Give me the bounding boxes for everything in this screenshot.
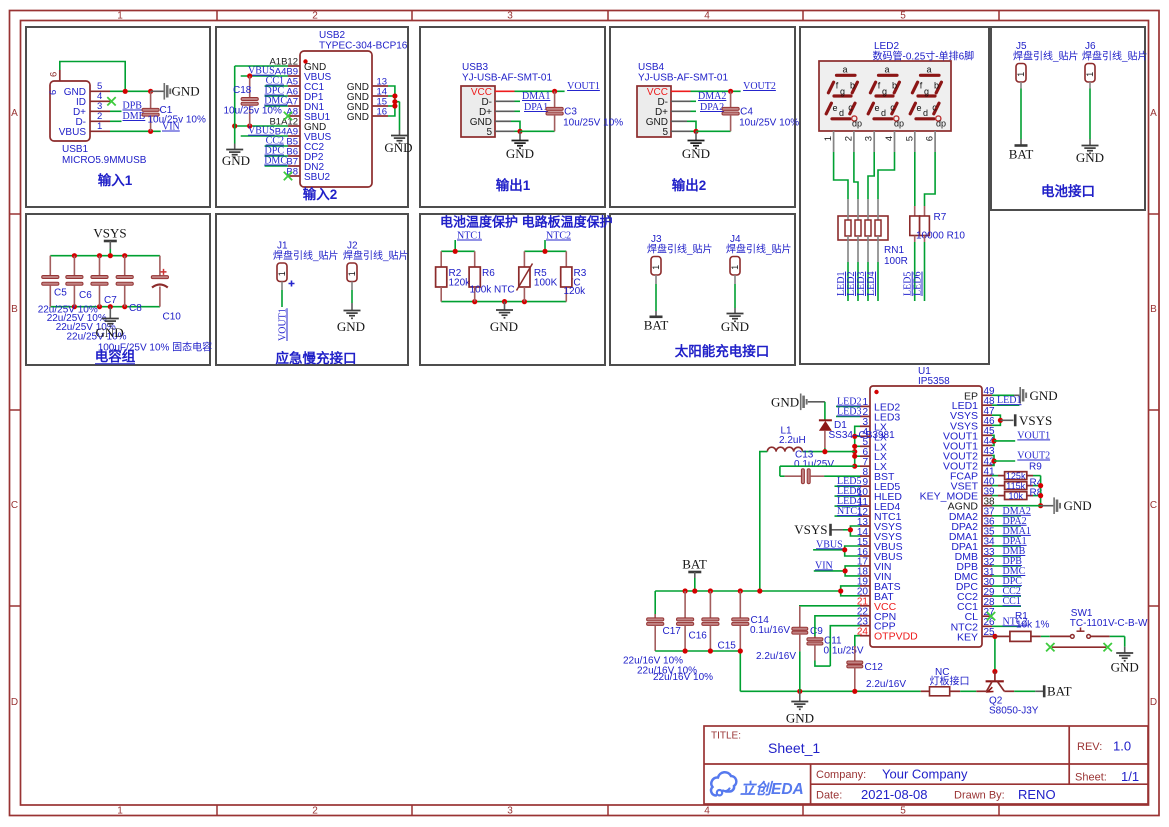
svg-text:输入2: 输入2: [303, 186, 338, 202]
svg-text:输入1: 输入1: [98, 172, 133, 188]
svg-text:LED6: LED6: [913, 272, 924, 296]
svg-text:数码管-0.25寸-单排6脚: 数码管-0.25寸-单排6脚: [873, 50, 975, 63]
svg-text:VSYS: VSYS: [93, 226, 126, 241]
module box capacitor bank: [26, 214, 210, 365]
wire USB1 pin5 to GND: [110, 90, 151, 92]
svg-text:电池温度保护 电路板温度保护: 电池温度保护 电路板温度保护: [440, 215, 613, 230]
svg-text:VOUT1: VOUT1: [1017, 430, 1050, 441]
svg-text:C3: C3: [564, 107, 577, 118]
capacitor C11 0.1u/25V: [814, 636, 816, 638]
svg-text:e: e: [832, 103, 837, 113]
svg-text:MICRO5.9MMUSB: MICRO5.9MMUSB: [62, 155, 147, 166]
wire VSYS top bus: [50, 255, 160, 257]
earth ground (cap bank): [109, 307, 111, 318]
earth ground (USB4): [695, 131, 697, 140]
svg-text:c: c: [848, 103, 853, 113]
connector USB4 YJ-USB-AF-SMT-01: [637, 86, 671, 137]
resistor R8 10k (KEY_MODE pin39): [992, 495, 998, 497]
capacitor C12 2.2u/16V: [854, 646, 856, 661]
capacitor C6 22u/25V: [73, 256, 75, 276]
wire USB3 pin5: [495, 130, 515, 132]
svg-text:RENO: RENO: [1018, 787, 1056, 802]
svg-text:C12: C12: [865, 662, 884, 673]
svg-text:DPA1: DPA1: [524, 102, 548, 113]
svg-text:1/1: 1/1: [1121, 769, 1139, 784]
svg-text:BAT: BAT: [682, 557, 707, 572]
svg-text:D: D: [11, 697, 18, 708]
capacitor C18: [249, 76, 251, 98]
svg-text:1: 1: [1085, 72, 1095, 77]
module box LED display: [800, 27, 989, 364]
svg-text:R9: R9: [1029, 462, 1042, 473]
svg-text:DPA2: DPA2: [700, 102, 724, 113]
module box solar charge: [610, 214, 795, 365]
svg-text:Sheet_1: Sheet_1: [768, 740, 820, 756]
wire USB4 GND jog: [671, 120, 687, 122]
capacitor C8 22u/25V: [124, 256, 126, 276]
net label VOUT1 (pins 44/45): [992, 435, 994, 445]
svg-text:C: C: [1150, 500, 1157, 511]
wire DP1 + net label DPC: [265, 95, 288, 97]
svg-text:USB3: USB3: [462, 62, 489, 73]
svg-text:VSYS: VSYS: [794, 522, 827, 537]
svg-text:1: 1: [347, 271, 357, 276]
svg-text:GND: GND: [1076, 150, 1104, 165]
svg-text:TC-1101V-C-B-W: TC-1101V-C-B-W: [1070, 618, 1148, 629]
earth ground (SW1): [1124, 636, 1126, 646]
svg-text:1: 1: [117, 11, 123, 22]
USB1 pin 6 (top): [59, 70, 61, 81]
svg-text:b: b: [934, 81, 939, 91]
svg-text:S8050-J3Y: S8050-J3Y: [989, 706, 1039, 717]
svg-text:10k 1%: 10k 1%: [1016, 620, 1049, 631]
svg-text:1: 1: [730, 265, 740, 270]
earth ground (J6): [1089, 139, 1091, 145]
LCEDA logo: [711, 772, 804, 798]
svg-text:TYPEC-304-BCP16: TYPEC-304-BCP16: [319, 41, 408, 52]
svg-text:5: 5: [486, 127, 492, 138]
U1 right pin leads, numbers, names: [982, 394, 992, 396]
svg-text:2.2uH: 2.2uH: [779, 435, 806, 446]
svg-text:SBU2: SBU2: [304, 172, 331, 183]
node junction pin5/pin6: [123, 89, 128, 94]
svg-text:应急慢充接口: 应急慢充接口: [276, 350, 357, 366]
wire stub D- net label DMA2: [671, 100, 691, 102]
svg-text:焊盘引线_贴片: 焊盘引线_贴片: [343, 249, 409, 262]
svg-text:OTPVDD: OTPVDD: [874, 631, 918, 643]
LED2 pin leads 1-6: [833, 131, 835, 152]
LED2 digit 3 segments: [910, 75, 941, 119]
svg-text:B: B: [1150, 304, 1157, 315]
module box emergency slow charge: [216, 214, 408, 365]
GND bus: [740, 690, 921, 692]
svg-text:1.0: 1.0: [1113, 739, 1131, 754]
svg-text:C9: C9: [810, 626, 823, 637]
connector USB2 TYPEC-304-BCP16: [300, 51, 372, 187]
svg-text:焊盘引线_贴片: 焊盘引线_贴片: [647, 243, 713, 256]
capacitor C17 22u/16V: [654, 591, 656, 618]
wire CPP (pin23): [830, 626, 860, 666]
wire CPN (pin22): [815, 616, 860, 638]
svg-text:2021-08-08: 2021-08-08: [861, 787, 928, 802]
net label VOUT2 (pins 42/43): [992, 455, 994, 465]
wire CC1 + net label: [265, 85, 288, 87]
svg-text:100k NTC: 100k NTC: [470, 285, 515, 296]
svg-text:DPB: DPB: [123, 101, 143, 112]
svg-text:10u/25v 10%: 10u/25v 10%: [148, 115, 206, 126]
wire LED2 net label (pin1): [836, 405, 860, 407]
BAT bus left segment: [655, 590, 760, 592]
svg-text:4: 4: [884, 136, 895, 141]
U1 left pin leads, numbers, names: [860, 405, 870, 407]
svg-text:10u/25v 10%: 10u/25v 10%: [224, 106, 282, 117]
svg-text:d: d: [839, 108, 844, 118]
wire USB3 GND jog: [495, 120, 511, 122]
wire VCC (pin21): [800, 605, 860, 607]
earth ground (J2): [351, 303, 353, 310]
resistor R2 120k: [440, 251, 442, 267]
connector USB3 YJ-USB-AF-SMT-01: [461, 86, 495, 137]
wire BATS/BAT (pins 19/20) to BAT bus: [841, 586, 860, 596]
svg-text:d: d: [881, 108, 886, 118]
svg-text:0.1u/25V: 0.1u/25V: [794, 459, 834, 470]
svg-text:输出2: 输出2: [672, 177, 707, 193]
net label VIN (pins 17/18): [845, 566, 860, 576]
module box output2: [610, 27, 795, 207]
net label NTC2 (pin26): [992, 625, 1021, 627]
svg-text:GND: GND: [1064, 498, 1092, 513]
node junction C18 bottom: [247, 123, 252, 128]
capacitor C14 0.1u/16V: [738, 588, 743, 593]
wire USB2 GND B1A12: [235, 125, 288, 127]
svg-text:GND: GND: [1030, 388, 1058, 403]
svg-text:dp: dp: [936, 119, 946, 129]
wire USB1 VBUS to VIN: [110, 130, 161, 132]
wires LED5/HLED(LED6)/LED4/NTC1 net labels (pins 9-12): [835, 485, 861, 487]
svg-text:J1: J1: [277, 241, 288, 252]
svg-text:10u/25V 10%: 10u/25V 10%: [739, 118, 799, 129]
svg-text:GND: GND: [682, 146, 710, 161]
svg-text:R3: R3: [574, 268, 587, 279]
svg-text:RN1: RN1: [884, 245, 904, 256]
svg-text:CC1: CC1: [1003, 596, 1021, 607]
svg-text:3: 3: [507, 806, 513, 817]
7-segment display LED2: [819, 61, 951, 131]
wire USB4 pin5: [671, 130, 691, 132]
wire L1 left to BAT bus: [760, 452, 768, 591]
svg-text:GND: GND: [172, 84, 200, 99]
svg-text:Date:: Date:: [816, 790, 842, 802]
earth ground (GND bus): [797, 689, 802, 694]
wire USB2 GND A1B12: [235, 65, 288, 67]
svg-text:1: 1: [117, 806, 123, 817]
svg-text:g: g: [882, 87, 887, 97]
svg-text:2: 2: [843, 136, 854, 141]
svg-text:A: A: [11, 108, 18, 119]
svg-text:d: d: [923, 108, 928, 118]
svg-text:J3: J3: [651, 234, 662, 245]
svg-text:C8: C8: [129, 303, 142, 314]
wire Q2 emitter to BAT flag: [1014, 690, 1035, 692]
earth ground (USB3): [519, 131, 521, 140]
svg-text:YJ-USB-AF-SMT-01: YJ-USB-AF-SMT-01: [462, 73, 552, 84]
wire cap bottom rail: [655, 650, 740, 652]
earth ground (J4): [734, 308, 736, 313]
wires to LED1-LED4 net labels: [847, 262, 849, 301]
module box battery connector: [991, 27, 1145, 210]
svg-text:USB2: USB2: [319, 30, 346, 41]
node junction GND: [517, 129, 522, 134]
power flag VSYS (pins 46/47): [992, 415, 1000, 425]
wire LED2 pin1 to RN1: [834, 152, 848, 199]
svg-text:C17: C17: [663, 626, 682, 637]
svg-text:4: 4: [704, 806, 710, 817]
svg-text:6: 6: [49, 72, 60, 77]
wire LX tie (pins 3-7): [855, 426, 860, 466]
svg-text:R6: R6: [482, 268, 495, 279]
wire stub D+ net label DPA1: [495, 110, 515, 112]
svg-text:b: b: [850, 81, 855, 91]
wire rail down to GND bus: [739, 651, 741, 691]
svg-text:GND: GND: [337, 319, 365, 334]
power ground GND (AGND pin38): [992, 505, 1041, 507]
resistor R3 120k: [565, 251, 567, 267]
transistor Q2 S8050-J3Y: [976, 690, 986, 692]
svg-text:立创EDA: 立创EDA: [740, 780, 804, 798]
svg-text:115k: 115k: [1006, 481, 1025, 491]
svg-text:焊盘引线_贴片: 焊盘引线_贴片: [1082, 50, 1148, 63]
svg-text:BAT: BAT: [1047, 684, 1072, 699]
svg-text:LED2: LED2: [874, 41, 899, 52]
capacitor C15 22u/16V: [708, 588, 713, 593]
capacitor C7 22u/25V: [99, 256, 101, 276]
svg-text:b: b: [892, 81, 897, 91]
wire CC2 + net label: [265, 145, 288, 147]
svg-text:Drawn By:: Drawn By:: [954, 790, 1005, 802]
svg-text:SS34–CB3981: SS34–CB3981: [829, 430, 896, 441]
wire stub D- with net label DMB: [110, 120, 122, 122]
svg-text:REV:: REV:: [1077, 741, 1102, 753]
capacitor C3 10u/25V: [554, 91, 556, 107]
svg-text:125k: 125k: [1006, 471, 1026, 481]
svg-text:VIN: VIN: [815, 560, 833, 571]
USB2 pin1 indicator dot: [303, 59, 307, 63]
svg-text:D: D: [1150, 697, 1157, 708]
svg-text:dp: dp: [852, 119, 862, 129]
svg-text:VOUT1: VOUT1: [278, 308, 289, 341]
svg-text:VOUT2: VOUT2: [1017, 451, 1050, 462]
wire USB2 VBUS A4B9 with net label: [241, 75, 288, 77]
svg-text:120k: 120k: [449, 278, 472, 289]
resistor R6 100k NTC: [474, 251, 476, 267]
resistor R10: [924, 206, 926, 216]
svg-text:太阳能充电接口: 太阳能充电接口: [675, 343, 770, 359]
node junction C3 top: [552, 89, 557, 94]
earth ground (temp protection): [504, 302, 506, 310]
svg-text:电池接口: 电池接口: [1041, 183, 1095, 199]
svg-text:GND: GND: [721, 319, 749, 334]
capacitor C5 22u/25V: [49, 256, 51, 276]
wire bottom bus: [50, 306, 160, 308]
title block: [704, 726, 1148, 804]
resistor R7 1000: [914, 206, 916, 216]
wire NTC2 top: [524, 250, 566, 252]
svg-text:1: 1: [97, 121, 102, 132]
svg-text:DMB: DMB: [123, 111, 146, 122]
svg-text:C16: C16: [689, 631, 708, 642]
svg-text:Company:: Company:: [816, 769, 866, 781]
wire to C4 bottom: [696, 130, 731, 132]
capacitor C10 polarized 100uF solid: [159, 256, 161, 276]
svg-text:DMC: DMC: [264, 156, 287, 167]
svg-text:J6: J6: [1085, 41, 1096, 52]
wire right GND tie: [388, 86, 395, 116]
USB1 pin leads: [90, 90, 110, 92]
svg-text:10u/25V 10%: 10u/25V 10%: [563, 118, 623, 129]
svg-text:LED3: LED3: [837, 406, 861, 417]
diode D1 SS34_CB3981: [824, 402, 826, 421]
earth ground (USB2 right): [399, 102, 401, 130]
net label LED1 (pin48): [992, 404, 1019, 406]
node junction C1 bottom: [148, 129, 153, 134]
svg-text:3: 3: [864, 136, 875, 141]
wire LED2 pin6 to R10: [925, 152, 936, 206]
svg-text:USB4: USB4: [638, 62, 665, 73]
svg-text:2: 2: [312, 11, 318, 22]
net label VBUS (pins 15/16): [845, 546, 860, 556]
wire NTC1 top: [441, 250, 475, 252]
svg-text:C15: C15: [718, 641, 737, 652]
wire LED2 pin4 to RN1: [878, 152, 895, 199]
svg-text:c: c: [890, 103, 895, 113]
svg-text:IP5358: IP5358: [918, 376, 950, 387]
connector USB1 MICRO5.9MMUSB: [50, 81, 90, 141]
svg-text:5: 5: [900, 806, 906, 817]
earth ground (USB2 left): [234, 144, 236, 150]
net labels DMA2..DPC CC2 CC1 (pins 37-28): [992, 515, 1021, 517]
svg-text:dp: dp: [894, 119, 904, 129]
svg-text:5: 5: [904, 136, 915, 141]
node junction C4 top: [728, 89, 733, 94]
svg-text:NTC1: NTC1: [837, 506, 862, 517]
svg-text:6: 6: [48, 90, 59, 95]
svg-text:120k: 120k: [564, 286, 587, 297]
svg-text:KEY: KEY: [957, 631, 978, 643]
svg-text:3: 3: [507, 11, 513, 22]
svg-text:2: 2: [312, 806, 318, 817]
svg-text:10000 R10: 10000 R10: [916, 231, 965, 242]
svg-text:NTC2: NTC2: [546, 231, 571, 242]
svg-text:VOUT1: VOUT1: [567, 81, 600, 92]
no-connect X SBU2: [284, 172, 292, 180]
capacitor C4 10u/25V: [730, 91, 732, 107]
wire LED2 pin3 to RN1: [868, 152, 874, 199]
U1 pin1 indicator dot: [874, 390, 878, 394]
svg-text:C18: C18: [233, 85, 252, 96]
capacitor C9 2.2u/16V: [799, 606, 801, 627]
switch SW1 second throw (unconnected): [1052, 646, 1106, 648]
svg-text:VOUT2: VOUT2: [743, 81, 776, 92]
node junction C1 top: [148, 89, 153, 94]
capacitor C1: [150, 91, 152, 108]
svg-text:C4: C4: [740, 107, 753, 118]
svg-text:e: e: [874, 103, 879, 113]
svg-text:e: e: [916, 103, 921, 113]
svg-text:NTC1: NTC1: [457, 231, 482, 242]
svg-text:DMA1: DMA1: [522, 91, 550, 102]
wire stub D- net label DMA1: [495, 100, 515, 102]
wire DP2 + net label DPC: [265, 155, 288, 157]
svg-text:GND: GND: [786, 711, 814, 726]
svg-text:GND: GND: [384, 140, 412, 155]
wires to LED5/LED6 net labels: [914, 236, 916, 243]
capacitor C16 22u/16V: [683, 588, 688, 593]
node junction GND: [693, 129, 698, 134]
svg-text:Your Company: Your Company: [882, 767, 968, 782]
node junction C18 top: [247, 73, 252, 78]
svg-text:0.1u/16V: 0.1u/16V: [750, 625, 790, 636]
svg-text:电容组: 电容组: [95, 348, 136, 364]
svg-text:1: 1: [823, 136, 834, 141]
wire LED2 pin5 to R7: [914, 152, 916, 206]
svg-text:焊盘引线_贴片: 焊盘引线_贴片: [1013, 50, 1079, 63]
wire stub D+ with net label DPB: [110, 110, 122, 112]
svg-text:GND: GND: [490, 319, 518, 334]
svg-text:5: 5: [900, 11, 906, 22]
svg-text:1: 1: [651, 265, 661, 270]
no-connect X SBU1: [284, 112, 292, 120]
power flag BAT (J5): [1020, 139, 1022, 145]
svg-text:GND: GND: [347, 112, 369, 123]
wire bottom rail: [441, 301, 566, 303]
power ground GND (EP pin49): [992, 394, 1014, 396]
svg-text:10k: 10k: [1008, 491, 1023, 501]
svg-text:BAT: BAT: [1009, 147, 1034, 162]
module box input2: [216, 27, 408, 207]
svg-text:g: g: [924, 87, 929, 97]
wire left GND vertical: [234, 66, 236, 144]
wire DN1 + net label DMC: [265, 105, 288, 107]
svg-text:C10: C10: [163, 312, 182, 323]
module box output1: [420, 27, 605, 207]
svg-text:GND: GND: [506, 146, 534, 161]
svg-text:DMA2: DMA2: [698, 91, 726, 102]
svg-text:100R: 100R: [884, 256, 908, 267]
svg-text:焊盘引线_贴片: 焊盘引线_贴片: [726, 243, 792, 256]
wire resistor tie vertical: [1040, 476, 1042, 506]
svg-text:TITLE:: TITLE:: [711, 731, 741, 742]
svg-text:J5: J5: [1016, 41, 1027, 52]
node junction left GND vertical: [232, 123, 237, 128]
svg-text:5: 5: [662, 127, 668, 138]
svg-text:A: A: [1150, 108, 1157, 119]
node junctions right GND: [392, 93, 397, 98]
svg-text:C6: C6: [79, 290, 92, 301]
svg-text:灯板接口: 灯板接口: [930, 675, 970, 688]
wire to C3 bottom: [520, 130, 555, 132]
svg-text:VSYS: VSYS: [1019, 413, 1052, 428]
node junctions bottom bus: [72, 304, 77, 309]
svg-text:BAT: BAT: [644, 318, 669, 333]
svg-text:B: B: [11, 304, 18, 315]
svg-text:LED4: LED4: [866, 272, 877, 296]
svg-text:C5: C5: [54, 288, 67, 299]
module box temperature protection: [420, 214, 605, 365]
svg-text:R7: R7: [934, 212, 947, 223]
svg-text:2.2u/16V: 2.2u/16V: [756, 651, 796, 662]
module box input1: [26, 27, 210, 207]
wire LED3 net label (pin2): [836, 415, 860, 417]
